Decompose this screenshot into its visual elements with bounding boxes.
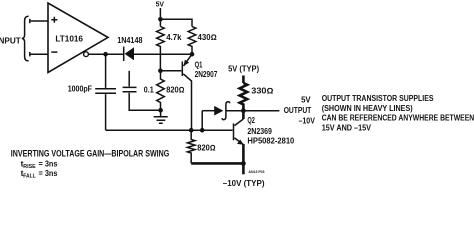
svg-text:HP5082-2810: HP5082-2810	[247, 136, 294, 145]
Q1 base bar	[181, 62, 183, 77]
svg-text:820Ω: 820Ω	[166, 86, 184, 95]
svg-text:(SHOWN IN HEAVY LINES): (SHOWN IN HEAVY LINES)	[322, 103, 413, 113]
svg-text:1000pF: 1000pF	[68, 85, 92, 94]
resistor R1 4.7k	[157, 27, 165, 71]
capacitor C2 0.1 plates	[123, 87, 137, 91]
svg-text:1N4148: 1N4148	[117, 36, 143, 45]
inverting output bubble	[84, 52, 89, 57]
junction node B	[190, 52, 195, 57]
junction node E	[200, 128, 205, 133]
Q2 emitter diagonal	[235, 138, 244, 145]
junction -10V node	[241, 161, 246, 166]
Q1 collector wire	[183, 74, 191, 130]
resistor R4 820 lower	[187, 130, 195, 163]
svg-text:2N2369: 2N2369	[247, 127, 272, 136]
svg-text:5V: 5V	[156, 0, 165, 8]
D2 schottky cathode squiggle	[222, 102, 230, 120]
wire diode to node B	[134, 53, 192, 55]
wire inverting input	[30, 53, 48, 55]
wire node E riser	[201, 111, 203, 131]
Q2 emitter arrow	[237, 140, 244, 145]
svg-text:INPUT: INPUT	[0, 35, 21, 45]
Q1 emitter arrow	[184, 60, 190, 66]
wire 5V feed	[159, 8, 161, 27]
svg-text:Q2: Q2	[247, 116, 255, 125]
heavy wire Q2 collector drop	[242, 111, 245, 119]
diode D2 schottky HP5082-2810	[214, 106, 223, 116]
wire to R2 top	[160, 19, 192, 26]
plus input marker	[51, 17, 57, 23]
svg-text:OUTPUT TRANSISTOR SUPPLIES: OUTPUT TRANSISTOR SUPPLIES	[322, 93, 434, 103]
terminal tick inverting input	[29, 52, 31, 56]
capacitor C1 top lead	[105, 54, 107, 88]
svg-text:430Ω: 430Ω	[198, 33, 217, 42]
svg-text:AN13 F03: AN13 F03	[248, 169, 265, 174]
svg-text:= 3ns: = 3ns	[39, 158, 58, 168]
input brace	[22, 16, 29, 61]
svg-text:820Ω: 820Ω	[197, 143, 215, 152]
svg-text:CAN BE REFERENCED ANYWHERE BET: CAN BE REFERENCED ANYWHERE BETWEEN	[322, 113, 474, 123]
diode D1 cathode bar	[123, 47, 125, 61]
minus input marker	[51, 51, 57, 53]
svg-text:5V (TYP): 5V (TYP)	[228, 65, 259, 74]
svg-text:330Ω: 330Ω	[251, 87, 273, 96]
svg-text:4.7k: 4.7k	[166, 33, 182, 42]
junction collector node	[241, 108, 246, 113]
resistor R2 430	[188, 27, 196, 55]
wire bubble to diode	[88, 53, 123, 55]
resistor R3 820 upper	[157, 71, 165, 110]
heavy wire 5V TYP feed	[242, 76, 245, 84]
svg-text:2N2907: 2N2907	[195, 70, 218, 79]
svg-text:INVERTING VOLTAGE GAIN—BIPOLAR: INVERTING VOLTAGE GAIN—BIPOLAR SWING	[11, 149, 170, 159]
ground	[154, 110, 168, 123]
Q2 base bar	[233, 123, 235, 140]
capacitor C2 top lead	[128, 71, 130, 87]
svg-text:= 3ns: = 3ns	[39, 168, 58, 178]
svg-text:OUTPUT: OUTPUT	[284, 106, 312, 115]
terminal tick noninverting input	[29, 19, 31, 23]
svg-text:5V: 5V	[301, 95, 311, 104]
svg-text:FALL: FALL	[23, 174, 36, 180]
svg-text:–10V: –10V	[299, 116, 316, 125]
wire noninverting input	[30, 20, 48, 22]
wire Q2 base line	[106, 129, 233, 131]
junction node A	[103, 52, 108, 57]
wire D2 cathode to collector node	[226, 110, 243, 112]
heavy wire Q2 emitter to -10V	[242, 144, 245, 174]
wire to D2 anode	[202, 110, 214, 112]
wire OUTPUT	[243, 110, 279, 112]
Q2 collector diagonal	[235, 119, 244, 126]
heavy wire negative supply rail	[191, 162, 243, 165]
capacitor C2 bottom lead	[129, 93, 160, 111]
capacitor C1 bottom lead	[105, 94, 107, 130]
wire Q1 base	[160, 70, 181, 72]
transistor Q1 emitter wire	[184, 54, 193, 66]
svg-text:RISE: RISE	[23, 164, 36, 170]
junction 5V split	[158, 17, 163, 22]
diode D1 1N4148	[125, 47, 134, 60]
svg-text:–10V (TYP): –10V (TYP)	[223, 178, 265, 188]
junction node C	[158, 69, 163, 74]
svg-text:0.1: 0.1	[144, 86, 154, 95]
svg-text:Q1: Q1	[195, 61, 203, 70]
resistor R5 330 heavy	[240, 83, 248, 111]
comparator U1 LT1016 body	[48, 3, 108, 73]
svg-text:LT1016: LT1016	[55, 33, 83, 43]
svg-text:15V AND –15V: 15V AND –15V	[322, 122, 371, 132]
capacitor C1 1000pF plates	[95, 89, 116, 93]
junction node D	[189, 128, 194, 133]
junction ground node	[158, 108, 163, 113]
